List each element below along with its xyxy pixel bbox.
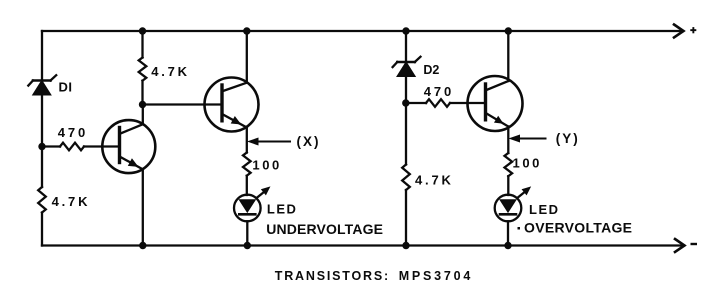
- resistor 4.7K (right, vertical): [402, 165, 410, 190]
- node +: plus terminal label: [690, 27, 696, 33]
- svg-text:100: 100: [513, 156, 543, 171]
- junction: Q3 collector at top rail: [505, 27, 512, 34]
- junction: top rail / 4.7K top resistor: [139, 27, 146, 34]
- resistor 100 (right, vertical): [504, 153, 512, 176]
- label LED (right): [529, 202, 560, 217]
- junction: LED2 at bottom rail: [504, 242, 511, 249]
- label LED (left): [267, 202, 298, 217]
- wire: 470 right lead to Q1 base: [84, 145, 120, 147]
- wire: 470 right lead from D2 node: [406, 102, 426, 104]
- label D2: [423, 63, 439, 77]
- label (X): [297, 134, 321, 149]
- label caption: TRANSISTORS: MPS3704: [275, 269, 473, 283]
- arrow: pointer to node (Y) on Q3 emitter: [510, 135, 546, 142]
- junction: Q1 emitter at bottom rail: [139, 242, 146, 249]
- wire: left branch lower segment above 4.7K: [41, 147, 43, 188]
- label 470 (right): [424, 84, 454, 99]
- wire: Q2 collector up to top rail: [246, 31, 248, 83]
- wire: 4.7K to node A: [141, 81, 143, 105]
- resistor 4.7K (top center, vertical): [139, 58, 147, 81]
- svg-text:470: 470: [58, 125, 88, 140]
- svg-text:(X): (X): [297, 134, 321, 149]
- svg-text:LED: LED: [529, 202, 560, 217]
- svg-text:UNDERVOLTAGE: UNDERVOLTAGE: [266, 221, 383, 237]
- label D1: [59, 80, 73, 95]
- junction: top rail / D2 branch: [402, 27, 409, 34]
- svg-text:LED: LED: [267, 202, 298, 217]
- label (Y): [556, 131, 580, 146]
- wire: Q2 emitter down to 100 resistor: [246, 128, 248, 153]
- wire: Q1 emitter down to bottom rail: [142, 169, 144, 245]
- wire: Q3 collector up to top rail: [507, 31, 509, 81]
- junction: D2 branch at bottom rail: [402, 242, 409, 249]
- wire: Q3 emitter down to 100 resistor: [507, 127, 509, 154]
- svg-text:TRANSISTORS:MPS3704: TRANSISTORS:MPS3704: [275, 269, 473, 283]
- wire: Q1 collector up to node A: [142, 105, 144, 125]
- svg-text:100: 100: [252, 158, 282, 173]
- wire: 470 left lead from left branch: [42, 145, 60, 147]
- label 100 (left): [252, 158, 282, 173]
- label 4.7K (right): [415, 173, 454, 188]
- wire: LED2 to bottom rail: [507, 221, 509, 245]
- wire: bottom supply rail: [42, 244, 684, 246]
- wire: LED1 to bottom rail: [246, 221, 248, 245]
- resistor 470 (left, horizontal): [60, 143, 84, 151]
- LED LED2 (overvoltage indicator): [495, 187, 531, 221]
- svg-text:DI: DI: [59, 80, 73, 95]
- resistor 470 (right, horizontal): [426, 99, 450, 107]
- label 4.7K (lower left): [52, 194, 91, 209]
- zener diode D2: [393, 57, 421, 77]
- junction: D2 anode / 470 node: [402, 99, 409, 106]
- wire: left vertical branch (upper segment, through D1): [41, 31, 43, 147]
- svg-text:4.7K: 4.7K: [415, 173, 454, 188]
- wire: left branch to bottom rail: [41, 213, 43, 246]
- wire: 100 resistor to LED1: [246, 176, 248, 195]
- LED LED1 (undervoltage indicator): [234, 187, 270, 221]
- arrowhead: bottom rail right end: [675, 239, 685, 252]
- svg-text:4.7K: 4.7K: [52, 194, 91, 209]
- zener diode D1: [28, 75, 56, 95]
- resistor 100 (left, vertical): [243, 153, 251, 176]
- transistor Q2: [205, 78, 259, 132]
- wire: D2 branch to bottom rail: [405, 190, 407, 246]
- label 100 (right): [513, 156, 543, 171]
- transistor Q3: [468, 76, 523, 131]
- label 4.7K (top center): [151, 64, 190, 79]
- junction: left branch / 470 resistor node: [38, 143, 45, 150]
- label 470 (left): [58, 125, 88, 140]
- wire: node A to Q2 base: [143, 103, 223, 105]
- wire: top supply rail: [42, 30, 683, 32]
- label UNDERVOLTAGE: [266, 221, 383, 237]
- arrowhead: top rail right end: [674, 25, 684, 38]
- svg-text:D2: D2: [423, 63, 439, 77]
- wire: top rail down to 4.7K: [141, 31, 143, 58]
- junction: Q2 collector at top rail: [243, 27, 250, 34]
- transistor Q1: [102, 120, 155, 173]
- wire: 100 resistor to LED2: [507, 176, 509, 195]
- node A: Q1 collector / Q2 base junction: [139, 101, 146, 108]
- wire: 470 to Q3 base: [450, 102, 486, 104]
- svg-text:OVERVOLTAGE: OVERVOLTAGE: [524, 220, 632, 236]
- junction: LED1 at bottom rail: [244, 242, 251, 249]
- label OVERVOLTAGE: [518, 220, 633, 236]
- resistor 4.7K (lower left, vertical): [38, 187, 46, 212]
- svg-text:470: 470: [424, 84, 454, 99]
- svg-text:4.7K: 4.7K: [151, 64, 190, 79]
- node -: minus terminal label: [691, 243, 698, 245]
- arrow: pointer to node (X) on Q2 emitter: [249, 138, 291, 145]
- svg-text:(Y): (Y): [556, 131, 580, 146]
- wire: D2 branch vertical (top rail through zener to 4.7K): [405, 31, 407, 165]
